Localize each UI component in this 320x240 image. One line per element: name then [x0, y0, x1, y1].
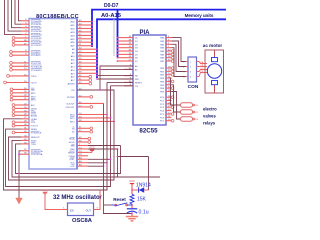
wire left net fifth [16, 144, 121, 174]
connector J2 electro valve 1 [181, 103, 200, 107]
svg-text:D0-D7: D0-D7 [104, 3, 119, 9]
connector J1 CON body with pins [183, 57, 199, 90]
ac motor M1 with enclosure [203, 43, 224, 93]
U2 data pin stubs from D bus drop [117, 37, 133, 62]
wire left net fourth long line to reset area [12, 140, 160, 177]
svg-text:RESET: RESET [135, 82, 143, 84]
svg-text:T2OUT: T2OUT [31, 126, 39, 128]
svg-text:P2.1/INT6: P2.1/INT6 [31, 55, 41, 57]
svg-text:PCS0/DCE: PCS0/DCE [31, 133, 42, 135]
svg-text:ac motor: ac motor [203, 43, 223, 48]
svg-text:PDTMR: PDTMR [67, 97, 75, 99]
wire U1 to U2 address select lines A0 A1 [77, 66, 133, 122]
wire bus of five nets from top edge into U1 port-1 pins [5, 0, 22, 35]
svg-text:32 MHz oscillator: 32 MHz oscillator [53, 195, 103, 201]
wire left net from U1 pin down around bottom (outermost) [4, 82, 108, 190]
power VCC symbol for reset circuit [129, 179, 135, 186]
svg-text:P1.1/GCS1: P1.1/GCS1 [31, 24, 42, 26]
U1 left pin labels [31, 20, 43, 157]
wire RESIN net from U1 down to reset circuit [104, 103, 132, 213]
svg-text:TXD1: TXD1 [31, 144, 37, 146]
wire U1 bottom right pins to vertical drops [88, 146, 121, 178]
svg-text:PC6/TXD1A: PC6/TXD1A [31, 153, 43, 156]
svg-text:P2.0/INT5: P2.0/INT5 [31, 52, 41, 54]
junction dots on A bus at U1 address stubs [96, 48, 98, 74]
bus D0-D7 horizontal with vertical drop from U1 AD pins [92, 10, 226, 47]
wire U2 port B lines down to valve connectors [171, 78, 181, 119]
U1 left unconnected pin circles [4, 37, 15, 134]
power VCC symbol at U1 lower right [88, 146, 95, 153]
svg-text:P1.3/GCS3: P1.3/GCS3 [31, 31, 42, 33]
svg-text:VCC: VCC [42, 188, 48, 192]
svg-text:A13/A: A13/A [31, 114, 37, 117]
svg-text:electro: electro [203, 107, 217, 112]
svg-text:EN: EN [70, 209, 74, 213]
label electro valves relays [203, 107, 217, 126]
U1 right unconnected pin circles [88, 75, 93, 143]
svg-text:0.1u: 0.1u [139, 209, 149, 215]
microcontroller U1 80C188EB/LCC body [29, 14, 79, 169]
svg-text:RXD1: RXD1 [31, 140, 37, 142]
svg-text:P1.2/GCS2: P1.2/GCS2 [31, 28, 42, 30]
U2 pin numbers [129, 36, 172, 121]
resistor R1 15K [130, 194, 147, 205]
svg-text:P1.0/GCS0: P1.0/GCS0 [31, 21, 42, 23]
svg-text:CON: CON [188, 84, 199, 90]
svg-text:PC5/RXD1A: PC5/RXD1A [31, 150, 43, 153]
svg-text:Reset: Reset [113, 197, 126, 202]
svg-text:82C55: 82C55 [139, 128, 158, 135]
wire U1 RD/WR lines to U2 from A-bus drop bottom [96, 75, 133, 80]
svg-text:valves: valves [203, 114, 216, 119]
svg-text:P2.3/SINT1: P2.3/SINT1 [31, 70, 43, 72]
wire switch left leg to bottom net [104, 204, 111, 206]
svg-text:HOLD: HOLD [69, 142, 75, 144]
wire oscillator OUT clock net to U1 [94, 190, 101, 210]
connector J4 electro valve 3 [181, 117, 200, 121]
svg-text:OUT: OUT [86, 209, 92, 213]
svg-text:P1.4/GCS4: P1.4/GCS4 [31, 35, 42, 37]
svg-text:WRB: WRB [31, 112, 36, 114]
wire J1 to ac motor terminals [197, 61, 208, 76]
U1 right pin labels [66, 21, 76, 169]
svg-text:CLKOUT: CLKOUT [66, 103, 75, 105]
diode D1 1N914 [132, 182, 151, 192]
svg-text:OSCOUT: OSCOUT [66, 107, 76, 109]
svg-text:TXD0: TXD0 [31, 76, 37, 78]
pushbutton SW1 Reset [111, 197, 132, 206]
off-page arrow pointing down [16, 198, 23, 204]
svg-text:15K: 15K [137, 197, 147, 203]
svg-text:WR: WR [135, 79, 139, 81]
svg-text:RFSH: RFSH [31, 129, 37, 131]
svg-text:Memory units: Memory units [185, 13, 214, 18]
svg-text:1N914: 1N914 [136, 182, 151, 188]
svg-text:relays: relays [203, 121, 216, 126]
svg-text:A0-A15: A0-A15 [101, 13, 122, 19]
wire VCC rail down reset branch [131, 186, 133, 194]
svg-text:TEST: TEST [69, 159, 75, 161]
svg-text:NMI: NMI [31, 89, 35, 91]
svg-text:LCS: LCS [70, 166, 75, 168]
U2 pin labels [135, 37, 165, 123]
U2 right port stubs with circles [166, 38, 174, 122]
svg-text:RESOUT: RESOUT [31, 137, 40, 139]
svg-text:80C188EB/LCC: 80C188EB/LCC [36, 14, 79, 20]
connector J3 electro valve 2 [181, 110, 200, 114]
svg-text:RES: RES [70, 149, 75, 151]
capacitor C1 0.1u [127, 205, 149, 217]
junction of switch resistor capacitor [131, 204, 133, 206]
svg-text:VCC: VCC [129, 179, 135, 183]
wire U2 RESET and CS lines [107, 82, 133, 85]
svg-text:DRQ0: DRQ0 [31, 108, 38, 110]
svg-text:RD: RD [135, 76, 139, 78]
svg-text:CLKO: CLKO [31, 83, 37, 85]
peripheral interface U2 PIA 82C55 body [133, 30, 166, 135]
U1 right pin stubs with pin numbers [77, 20, 114, 167]
svg-text:OSC8A: OSC8A [72, 218, 93, 222]
wire U2 port A lines to connector J1 [172, 38, 186, 77]
svg-text:HLDA: HLDA [69, 138, 75, 141]
svg-text:UCS: UCS [70, 163, 75, 165]
ground symbol below capacitor [126, 217, 138, 221]
wire VCC to oscillator EN pin [45, 195, 68, 210]
svg-text:P2.5/BCLK1: P2.5/BCLK1 [31, 66, 43, 68]
bus A0-A15 horizontal with vertical drop from U1 address pins [97, 19, 226, 78]
svg-text:RD: RD [71, 90, 75, 92]
U2 left control pin stubs [124, 66, 133, 86]
wire left net third [9, 121, 115, 180]
U1 left pin stubs with pin numbers [6, 19, 29, 154]
svg-text:VCC: VCC [89, 146, 95, 150]
wire U1 serial pins to arrow net [18, 151, 21, 199]
svg-text:P1.6/GCS6: P1.6/GCS6 [31, 41, 42, 43]
wire left net second [6, 86, 111, 187]
junction dots on D bus at U1 AD stubs [91, 21, 93, 47]
svg-text:P1.5/GCS5: P1.5/GCS5 [31, 38, 42, 40]
svg-text:P1.7/GCS7: P1.7/GCS7 [31, 45, 42, 47]
bus vertical drop feeding PIA data pins [117, 10, 119, 57]
gray address stub line [113, 19, 115, 56]
svg-text:PIA: PIA [139, 30, 150, 36]
svg-text:A18/S3: A18/S3 [68, 83, 76, 86]
wire inner loop near reset [117, 156, 149, 190]
svg-text:CLKIN: CLKIN [68, 156, 75, 158]
svg-text:RESIN: RESIN [68, 152, 75, 154]
oscillator U3 32 MHz body [53, 195, 103, 224]
power VCC symbol for oscillator [42, 188, 48, 195]
svg-text:LCS: LCS [31, 122, 36, 124]
svg-text:P2.4/CTS1: P2.4/CTS1 [31, 63, 42, 65]
svg-text:UCAS: UCAS [31, 118, 37, 121]
svg-text:NMI: NMI [71, 146, 75, 148]
